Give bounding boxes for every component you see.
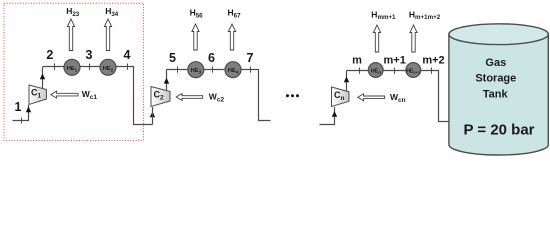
flow arrowhead Cn outlet [344,77,349,83]
node 6 tick [212,67,214,73]
node 4 tick [127,64,129,70]
heat exchanger HEn+1 [406,63,421,78]
node m+2 tick [431,68,433,74]
heat rejection arrow Hm+1m+2 [410,25,417,52]
wire: stage 1 pipe node2-node4 and drop to C2 [43,67,153,125]
svg-text:HE3: HE3 [191,68,202,75]
node 1 tick [21,118,23,124]
heat exchanger HE4 [225,62,241,78]
compressor Cn [332,87,350,107]
compressor C1 [29,85,47,105]
heat rejection arrow Hmm+1 [373,25,380,52]
svg-text:Gas: Gas [485,57,506,69]
svg-text:m: m [352,55,362,67]
heat rejection arrow H34 [104,19,111,51]
compressor C2 [151,87,170,107]
gas storage tank body [449,34,548,155]
svg-text:Tank: Tank [483,88,509,100]
wire: stage 2 pipe node5-node7 and drop [167,70,271,121]
flow arrowhead C2 outlet [164,78,169,84]
flow arrowhead C1 outlet [40,74,45,80]
heat exchanger HEn [368,63,383,78]
work input arrow W_cn [358,94,385,101]
node 5 tick [177,67,179,73]
svg-text:1: 1 [15,100,22,114]
svg-text:HEn: HEn [371,68,382,75]
svg-text:m+1: m+1 [384,55,406,67]
heat exchanger HE1 [64,59,80,75]
wire: C1 outlet riser [42,67,44,89]
node 7 tick [250,67,252,73]
work input arrow W_c1 [51,91,78,98]
node m+1 tick [394,68,396,74]
work input arrow W_c2 [176,94,203,101]
heat rejection arrow H23 [67,19,74,51]
wire: inlet to Cn [320,107,335,125]
wire: C2 outlet riser [166,70,168,91]
flow arrowhead into Cn [332,111,337,117]
svg-text:6: 6 [208,51,215,65]
wire: inlet to C1 [13,105,29,121]
svg-text:7: 7 [247,51,254,65]
svg-text:HE1: HE1 [67,66,78,73]
wire: Cn outlet riser [346,71,348,92]
svg-text:m+2: m+2 [422,55,444,67]
gas storage tank top ellipse [449,24,548,45]
svg-text:3: 3 [86,48,93,62]
svg-text:HEn+1: HEn+1 [406,68,421,74]
svg-text:P = 20 bar: P = 20 bar [463,121,534,138]
wire: stage n pipe node m - m+2 into tank [347,71,451,122]
svg-text:5: 5 [169,51,176,65]
svg-text:HE4: HE4 [228,68,239,75]
svg-text:4: 4 [124,48,131,62]
heat exchanger HE2 [100,59,116,75]
node 3 tick [89,64,91,70]
svg-text:HE2: HE2 [103,66,114,73]
ellipsis between stages [286,94,299,97]
wire: riser into C2 [152,107,154,125]
flow arrowhead into C2 [150,112,155,118]
node 2 tick [54,64,56,70]
svg-text:2: 2 [46,48,53,62]
node m tick [359,68,361,74]
heat rejection arrow H56 [192,24,199,50]
flow arrowhead into C1 [26,107,31,113]
heat exchanger HE3 [188,62,204,78]
stage 1 boundary (red dashed box) [4,3,144,140]
heat rejection arrow H67 [228,24,235,50]
svg-text:Storage: Storage [475,72,516,84]
